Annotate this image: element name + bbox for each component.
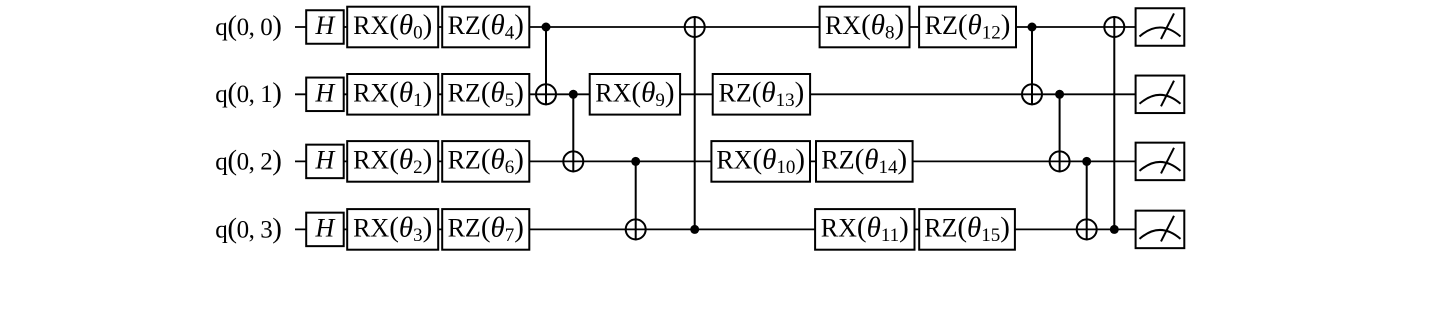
- svg-text:q(0, 3): q(0, 3): [215, 212, 281, 244]
- svg-text:H: H: [315, 11, 336, 40]
- svg-text:q(0, 0): q(0, 0): [215, 10, 281, 42]
- svg-text:q(0, 1): q(0, 1): [215, 77, 281, 109]
- svg-text:H: H: [315, 146, 336, 175]
- svg-text:H: H: [315, 79, 336, 108]
- svg-text:q(0, 2): q(0, 2): [215, 144, 281, 176]
- svg-text:H: H: [315, 214, 336, 243]
